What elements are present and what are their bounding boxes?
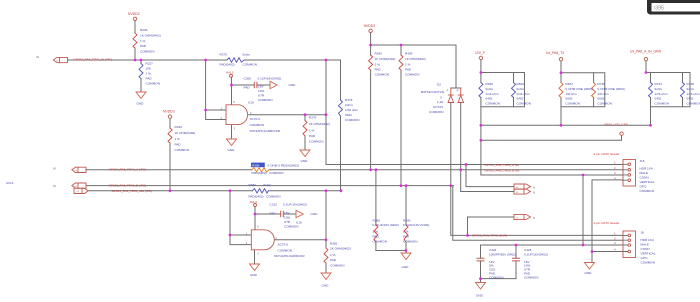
junction (480.9,140.3) — [480, 139, 483, 142]
wire: gate1 feed vertical x205.6 — [206, 60, 226, 120]
svg-text:COMMON: COMMON — [640, 189, 654, 193]
diode D2 (dual BAT54C) — [450, 88, 452, 95]
svg-text:R736: R736 — [598, 82, 606, 86]
svg-text:16V: 16V — [284, 211, 290, 215]
svg-text:R381: R381 — [330, 241, 338, 245]
svg-text:U16: U16 — [296, 220, 302, 224]
capacitor C306 plates (x253.2/258.3 y85) — [254, 82, 257, 87]
svg-text:J8: J8 — [641, 231, 645, 235]
port C (right, y217) — [514, 214, 531, 219]
svg-text:16V: 16V — [258, 85, 264, 89]
svg-text:GND: GND — [289, 83, 297, 87]
svg-text:COMMON: COMMON — [486, 101, 500, 105]
svg-text:1 %: 1 % — [373, 230, 379, 234]
resistor R736 (orange-red, x593.6 y82.5-97.5) — [592, 83, 596, 98]
svg-text:VERTICAL: VERTICAL — [640, 180, 655, 184]
wire: pair3 left column x650.5 — [650, 73, 652, 126]
svg-text:PAD: PAD — [403, 235, 410, 239]
resistor R381 (red, x326 y248-263) — [324, 248, 328, 263]
svg-text:COMMON: COMMON — [309, 140, 323, 144]
svg-text:1 %: 1 % — [140, 39, 146, 43]
ground below R368/R400 rail — [401, 253, 411, 260]
svg-text:COMMON: COMMON — [284, 225, 298, 229]
resistor R738 (blue, x682.5 y82.5-97.5) — [681, 83, 685, 98]
ground below R381 — [321, 273, 331, 280]
svg-text:GPIO3_PA6_TRIG_B (R): GPIO3_PA6_TRIG_B (R) — [472, 234, 507, 238]
svg-text:2K OHM(0402): 2K OHM(0402) — [330, 247, 351, 251]
wire: pair2 mid column x593.6 — [593, 73, 595, 107]
svg-text:R734: R734 — [655, 82, 663, 86]
resistor R229 (red, x135 y33-48) — [133, 33, 137, 48]
svg-text:IN: IN — [37, 55, 40, 59]
wire: R276 vertical x305 — [304, 115, 306, 150]
svg-text:1/16 ohm: 1/16 ohm — [655, 92, 668, 96]
wire: pair2 rect rails — [561, 73, 605, 107]
ground below gate1 — [227, 139, 237, 146]
terminal circle PA06_LED_GND — [620, 132, 623, 135]
svg-text:COMMON: COMMON — [566, 101, 580, 105]
svg-text:10%: 10% — [258, 89, 264, 93]
svg-text:PAD: PAD — [405, 68, 412, 72]
capacitor C425 plates (x516 y258.3/260.9) — [513, 258, 520, 261]
wire: NVDD3 rail y45 — [371, 44, 456, 46]
wire: pair2 left column x561 — [560, 73, 562, 126]
junction (305,114.7) — [304, 113, 307, 116]
svg-text:COMMON: COMMON — [405, 73, 419, 77]
svg-text:R406: R406 — [405, 52, 413, 56]
wire: port A branch x466 — [466, 165, 514, 187]
junction (561,72.7) — [560, 71, 563, 74]
wire: TX flag stem x561 — [560, 61, 562, 73]
svg-text:0.01UF/16V (0402): 0.01UF/16V (0402) — [373, 223, 399, 227]
svg-text:C424: C424 — [489, 248, 497, 252]
svg-text:1 %: 1 % — [146, 72, 152, 76]
junction (516,245) — [515, 244, 518, 247]
svg-text:1K OHM(0402): 1K OHM(0402) — [140, 34, 161, 38]
resistor R406 (red, x401 y55-70) — [399, 55, 403, 70]
wire: J16 pin4 feed x592 — [592, 180, 623, 252]
svg-text:GPO: GPO — [640, 185, 647, 189]
junction (230,235) — [229, 234, 232, 237]
ground right of C306 — [270, 81, 277, 88]
ground below R276 — [300, 150, 310, 157]
svg-text:0ohm: 0ohm — [243, 52, 251, 56]
svg-text:3: 3 — [440, 95, 442, 99]
capacitor C312 plates (x279.2/284.3 y214) — [281, 211, 284, 216]
junction (230,190.8) — [229, 189, 232, 192]
junction (370.6,45) — [369, 44, 372, 47]
value label R395 highlighted — [251, 163, 265, 168]
wire: C424 stems x480.5 — [480, 245, 482, 283]
svg-text:COMMON: COMMON — [175, 148, 189, 152]
svg-text:COMMON: COMMON — [403, 240, 417, 244]
svg-text:GND: GND — [402, 265, 410, 269]
svg-text:GPO: GPO — [641, 256, 648, 260]
resistor R276 (red, x305 y120.5-136) — [303, 121, 307, 137]
wire: R227 vertical x141 — [140, 60, 142, 92]
svg-text:SOT23: SOT23 — [433, 105, 443, 109]
junction (255,214) — [254, 213, 257, 216]
svg-text:0603: 0603 — [598, 97, 605, 101]
svg-text:C312: C312 — [270, 203, 278, 207]
ground below gate2 — [250, 264, 260, 271]
svg-text:PAD: PAD — [146, 77, 153, 81]
svg-text:0402: 0402 — [655, 97, 662, 101]
svg-text:10%: 10% — [284, 216, 290, 220]
wire: diode left leg x450.8 to bus2 — [451, 103, 623, 235]
ground right of C312 — [296, 210, 303, 217]
svg-text:COMMON: COMMON — [140, 50, 154, 54]
svg-text:SC70-5: SC70-5 — [250, 117, 261, 121]
op-amp style AND gate U16A — [226, 105, 248, 125]
svg-text:X7R: X7R — [284, 220, 291, 224]
svg-text:PAD: PAD — [175, 143, 182, 147]
wire: gate1 AVL3 stem and cap branch x232 — [232, 77, 271, 105]
wire: R375 right to corner x340 y60 — [244, 59, 340, 61]
wire: vertical NVDD3#1 stem x135 — [134, 21, 136, 60]
net flag circle Ux_PA6_TX — [559, 58, 562, 61]
junction (450.8,185.6) — [449, 184, 452, 187]
junction (375.9,169.8) — [375, 168, 378, 171]
svg-text:1 %: 1 % — [375, 63, 381, 67]
svg-text:PAD: PAD — [244, 86, 251, 90]
wire: line1 TRIG_A_R y164.5 to J16 pin1 — [326, 164, 623, 166]
power AVL3 circle gate2 — [254, 204, 257, 207]
svg-text:0ohm: 0ohm — [264, 183, 272, 187]
ground below caps C424/C425 — [476, 283, 486, 290]
wire: port C branch x466 — [468, 217, 515, 235]
svg-text:Ux_PA6_A_IN_GRN: Ux_PA6_A_IN_GRN — [630, 49, 662, 53]
junction (406,250.5) — [405, 249, 408, 252]
svg-text:GPIO3_PA6_TRIG_B (IPC): GPIO3_PA6_TRIG_B (IPC) — [109, 183, 147, 187]
svg-text:R382: R382 — [249, 183, 257, 187]
svg-text:R276: R276 — [309, 116, 317, 120]
svg-text:NVDD3: NVDD3 — [364, 24, 376, 28]
svg-text:COMMON: COMMON — [517, 101, 531, 105]
svg-text:PA06_LED_GND: PA06_LED_GND — [605, 123, 629, 127]
port 1 (left, y169.8) — [72, 167, 86, 172]
wire: gate2 bottom pin — [254, 250, 256, 264]
svg-text:COMMON: COMMON — [373, 240, 387, 244]
wire: R368/R400 bottom rail y250.5 — [376, 250, 406, 252]
port IN (top-left, y60) — [53, 57, 67, 62]
junction (205.6,110) — [204, 109, 207, 112]
wire: gate1 bottom pin to GND — [231, 125, 233, 139]
svg-text:1/16 ohm: 1/16 ohm — [687, 92, 700, 96]
wire: bus3 y190.8 port3 (gap for R382) — [88, 190, 341, 192]
svg-text:1/16 ohm: 1/16 ohm — [345, 108, 358, 112]
svg-text:R229: R229 — [140, 28, 148, 32]
svg-text:0ohm: 0ohm — [687, 87, 695, 91]
svg-text:1 %: 1 % — [405, 63, 411, 67]
power AVL3 circle gate1 — [230, 74, 233, 77]
svg-text:r395: r395 — [654, 5, 664, 11]
svg-text:0 OHM 0 RESIS(0402): 0 OHM 0 RESIS(0402) — [268, 163, 299, 167]
svg-text:COMMON: COMMON — [250, 123, 264, 127]
svg-text:0.1UF/16V(0402): 0.1UF/16V(0402) — [524, 253, 548, 257]
svg-text:0.1UF/16V(0402): 0.1UF/16V(0402) — [258, 76, 282, 80]
svg-text:R637: R637 — [566, 82, 574, 86]
port 2 (left, y185.6) — [72, 183, 86, 188]
svg-text:COMMON: COMMON — [524, 275, 538, 279]
junction (141,60) — [140, 59, 143, 62]
resistor R629 (blue, x513.5 y82.5-97.5) — [512, 83, 516, 98]
wire: R379 vertical x340.5 — [339, 60, 342, 191]
resistor R637 (orange-red, x561 y82.5-97.5) — [559, 83, 563, 98]
svg-text:GPIO4_PA6_TRIG_A (IPC): GPIO4_PA6_TRIG_A (IPC) — [109, 167, 147, 171]
wire: J8 pin4 and gnd stem — [592, 252, 623, 263]
junction (646,72.5) — [645, 71, 648, 74]
svg-text:GND: GND — [585, 271, 593, 275]
junction (370.6,169.8) — [369, 168, 372, 171]
junction (135,60) — [134, 59, 137, 62]
wire: bus1 y169.8 port1 to J16 pin2 (gap for R395) — [86, 169, 623, 171]
wire: R406 vertical x401 — [400, 45, 402, 186]
svg-text:1/16 ohm: 1/16 ohm — [517, 92, 530, 96]
wire: gate2 output y239.8 — [274, 239, 326, 241]
svg-text:0.1UF/16V(0402): 0.1UF/16V(0402) — [283, 203, 307, 207]
svg-text:4-pin GPIO header: 4-pin GPIO header — [594, 221, 620, 225]
AND gate U16B body (gate2) — [251, 230, 274, 250]
svg-text:4-pin GPIO header: 4-pin GPIO header — [594, 152, 620, 156]
power NVDD3 circle #1 — [133, 17, 136, 20]
svg-text:COMMON: COMMON — [243, 63, 257, 67]
resistor R400 (red, x406 y225-242) — [404, 225, 408, 242]
svg-text:R342: R342 — [375, 52, 383, 56]
wire: gate2 AVL3 stem and cap branch x255.5 — [255, 207, 296, 230]
svg-text:COMMON: COMMON — [266, 194, 280, 198]
svg-text:1 %: 1 % — [309, 129, 315, 133]
port A (right, y186.6) — [514, 184, 531, 189]
svg-text:1/8 ohm: 1/8 ohm — [598, 92, 610, 96]
junction (326,239.8) — [325, 238, 328, 241]
svg-text:COMMON: COMMON — [278, 248, 292, 252]
resistor R375 (blue, horizontal on y60 x227-244) — [227, 58, 244, 62]
wire: caps bottom rail y278.6 — [481, 278, 517, 280]
svg-text:1,2A: 1,2A — [437, 100, 444, 104]
svg-text:2K OHM(0402): 2K OHM(0402) — [309, 122, 330, 126]
svg-text:COMMON: COMMON — [655, 101, 669, 105]
svg-text:NVDD3: NVDD3 — [128, 12, 140, 16]
svg-text:GND: GND — [228, 148, 236, 152]
junction (326,60) — [325, 59, 328, 62]
resistor R342 (red, x370.6 y55-70) — [369, 55, 373, 70]
svg-text:0402: 0402 — [687, 97, 694, 101]
svg-text:SN74AHC1G08DCKR: SN74AHC1G08DCKR — [274, 254, 305, 258]
junction (583,245) — [582, 244, 585, 247]
svg-text:AVL3: AVL3 — [250, 200, 258, 204]
svg-text:D2: D2 — [437, 82, 441, 86]
svg-text:J16: J16 — [640, 159, 645, 163]
svg-text:0402: 0402 — [345, 113, 352, 117]
svg-text:1/16 ohm: 1/16 ohm — [486, 92, 499, 96]
wire: R381 vertical x326 from bus3 — [325, 191, 327, 273]
wire: bus2 y185.6 port2 to corner x453.5 — [86, 185, 454, 187]
junction (326,114.7) — [325, 113, 328, 116]
svg-text:N: N — [533, 216, 535, 220]
wire: R400 feed vertical x406 — [405, 186, 407, 253]
junction (341,190.8) — [340, 189, 343, 192]
resistor R379 (blue, x340.5 y100-116) — [339, 100, 343, 116]
svg-text:0402: 0402 — [486, 97, 493, 101]
junction (592,251.5) — [591, 250, 594, 253]
svg-text:COMMON: COMMON — [375, 73, 389, 77]
svg-text:1000PF/50V (0402): 1000PF/50V (0402) — [489, 253, 516, 257]
svg-text:NVDD3: NVDD3 — [163, 110, 175, 114]
svg-text:COMMON: COMMON — [269, 171, 283, 175]
svg-text:GND: GND — [137, 102, 145, 106]
svg-text:PAD(0402): PAD(0402) — [220, 63, 235, 67]
resistor R368 (red, x375.9 y225-242) — [374, 225, 378, 242]
wire: vertical x326 net y60 to line1 — [325, 60, 327, 165]
junction (480.9,125.3) — [480, 124, 483, 127]
resistor R346 (red, x170 y128-143) — [168, 128, 172, 143]
wire: port IN to R375 (net TRIG_IN) y60 — [68, 59, 228, 61]
wire: pair3 mid column x682.5 — [682, 73, 684, 107]
wire: diode top bar y88 — [451, 87, 461, 89]
svg-text:1 %: 1 % — [175, 137, 181, 141]
svg-text:R400: R400 — [403, 219, 411, 223]
wire: diode right leg x460.7 to bus1 and port B — [461, 103, 514, 192]
svg-text:COMMON: COMMON — [687, 101, 700, 105]
svg-text:1/8 ohm: 1/8 ohm — [566, 92, 578, 96]
wire: diode feed x456 from rail — [455, 45, 457, 88]
svg-text:PAD: PAD — [270, 212, 277, 216]
ground below R227 — [136, 92, 146, 99]
svg-text:COMMON: COMMON — [489, 275, 503, 279]
svg-text:1K OHM(0402): 1K OHM(0402) — [375, 57, 396, 61]
wire: R342 vertical x370.6 — [370, 33, 372, 170]
svg-text:PAD(0402): PAD(0402) — [249, 194, 264, 198]
resistor R227 (blue, x141 y63.5-78.5) — [139, 64, 143, 79]
svg-text:N: N — [533, 186, 535, 190]
wire: pin3 feed y175 from x480.9 column — [481, 174, 623, 176]
svg-text:COMMON: COMMON — [146, 82, 160, 86]
svg-text:1 %: 1 % — [403, 230, 409, 234]
wire: LED GND wire y140.3 — [481, 136, 622, 141]
svg-text:0402: 0402 — [517, 97, 524, 101]
ground below J8 pin4 — [585, 263, 595, 270]
connector J8 box — [623, 231, 636, 258]
svg-text:COMMON: COMMON — [598, 101, 612, 105]
svg-text:HDR 1X4: HDR 1X4 — [641, 238, 654, 242]
connector J16 box — [623, 160, 636, 187]
svg-text:IN: IN — [53, 167, 56, 171]
svg-text:0ohm: 0ohm — [345, 103, 353, 107]
svg-text:IN: IN — [53, 184, 56, 188]
capacitor C424 plates (x480.5 y258.3/260.9) — [477, 258, 484, 261]
svg-text:GND: GND — [301, 159, 309, 163]
junction (205.6,60) — [204, 59, 207, 62]
resistor R382 (blue, horizontal on y190.8 x252.5-268.5) — [253, 189, 269, 193]
svg-text:PAD: PAD — [373, 235, 380, 239]
junction (170,190.8) — [169, 189, 172, 192]
wire: pair1 mid column x513.5 — [513, 73, 515, 107]
svg-text:X7R: X7R — [258, 94, 265, 98]
svg-text:COMMON: COMMON — [345, 118, 359, 122]
wire: cap rail y242.8 to J8 pin2 — [481, 244, 623, 246]
svg-text:1K OHM(0402): 1K OHM(0402) — [405, 57, 426, 61]
svg-text:R629: R629 — [517, 82, 525, 86]
svg-text:AVL3: AVL3 — [6, 181, 14, 185]
svg-text:C306: C306 — [244, 76, 252, 80]
wire: gate1 output y114.7 — [249, 114, 326, 116]
svg-text:BAT54C(SOT23): BAT54C(SOT23) — [421, 90, 444, 94]
svg-text:HDR 1X4: HDR 1X4 — [640, 167, 653, 171]
svg-text:N: N — [533, 191, 535, 195]
resistor R626 (blue, x480.9 y82.5-97.5) — [479, 83, 483, 98]
svg-text:0603: 0603 — [566, 97, 573, 101]
power 12V_F circle — [479, 56, 482, 59]
svg-text:PAD: PAD — [330, 258, 337, 262]
junction (561,125.3) — [560, 124, 563, 127]
svg-text:0ohm: 0ohm — [655, 87, 663, 91]
svg-text:0 OHM ONE (0603): 0 OHM ONE (0603) — [598, 87, 625, 91]
svg-text:GPIO2_PA6_TRIG_IN (IPC): GPIO2_PA6_TRIG_IN (IPC) — [74, 57, 113, 61]
svg-text:MALE: MALE — [640, 171, 648, 175]
svg-text:GND: GND — [476, 294, 484, 298]
svg-text:GPIO4_PA6_TRIG_IN2 (IPC): GPIO4_PA6_TRIG_IN2 (IPC) — [112, 189, 153, 193]
wire: 12V_F stem x480.9 — [480, 60, 482, 73]
svg-text:R626: R626 — [486, 82, 494, 86]
wire: corner bus2 down x453.5 to J8 pin1 wire — [453, 186, 623, 241]
svg-text:COMMON: COMMON — [330, 264, 344, 268]
svg-text:GND: GND — [311, 212, 319, 216]
wire: R368 feed vertical x375.9 — [375, 170, 377, 251]
junction (406,185.6) — [405, 184, 408, 187]
resistor R395 highlighted (orange, horizontal on y169.8 x252-269) — [252, 168, 269, 172]
wire: C425 stems x516 — [515, 245, 517, 279]
svg-text:R395: R395 — [252, 163, 260, 167]
port 3 (left, y190.8 pointing right) — [74, 188, 88, 193]
svg-text:R346: R346 — [175, 125, 183, 129]
svg-text:PAD(0402): PAD(0402) — [252, 171, 267, 175]
svg-text:R368: R368 — [373, 219, 381, 223]
svg-text:0.01UF/16V (0402): 0.01UF/16V (0402) — [403, 223, 429, 227]
wire: LED bus y125.3 — [481, 124, 651, 126]
wire: pair1 left column x480.9 — [480, 73, 482, 176]
junction (326,190.8) — [325, 189, 328, 192]
svg-text:R738: R738 — [687, 82, 695, 86]
junction (401,185.6) — [400, 184, 403, 187]
junction (231.5,85) — [230, 84, 233, 87]
junction (583,175) — [582, 174, 585, 177]
power NVDD3 circle #3 — [369, 29, 372, 32]
net flag circle Ux_PA6_A_IN_GRN — [644, 58, 647, 61]
svg-text:PAD: PAD — [140, 44, 147, 48]
wire: x583 vertical J16 pin3 net down to J8 pin3 — [582, 175, 584, 245]
svg-text:R379: R379 — [345, 98, 353, 102]
svg-text:0 OHM ONE (0603): 0 OHM ONE (0603) — [566, 87, 593, 91]
svg-text:0ohm: 0ohm — [486, 87, 494, 91]
resistor R734 (blue, x650.5 y82.5-97.5) — [649, 83, 653, 98]
junction (401,45) — [400, 44, 403, 47]
svg-text:1K OHM(0402): 1K OHM(0402) — [175, 131, 196, 135]
svg-text:10K: 10K — [146, 67, 152, 71]
junction (466,164.5) — [465, 163, 468, 166]
wire: GRN flag stem x646 — [645, 61, 647, 73]
junction (460.7,169.8) — [459, 168, 462, 171]
junction (480.5,278.6) — [479, 277, 482, 280]
svg-text:0ohm: 0ohm — [517, 87, 525, 91]
svg-text:GND: GND — [322, 284, 330, 288]
power NVDD3 circle #2 — [168, 115, 171, 118]
junction (467.5,235.4) — [466, 234, 469, 237]
svg-text:R375: R375 — [220, 52, 228, 56]
svg-text:GND: GND — [250, 273, 258, 277]
svg-text:U16: U16 — [248, 100, 254, 104]
svg-text:R227: R227 — [146, 62, 154, 66]
